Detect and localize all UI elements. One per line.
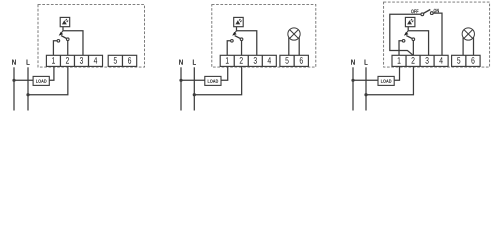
panel 1 terminal pin number 5	[114, 57, 117, 63]
panel 3 LOAD value label	[381, 79, 391, 82]
panel 2 relay K2 open contact	[231, 40, 234, 43]
panel 3 terminal pin number 6	[471, 57, 474, 64]
panel 3 live line L	[365, 67, 367, 110]
panel 1 junction on N	[12, 79, 15, 82]
panel 1 wire L to terminal 2	[28, 66, 68, 94]
panel 3 terminal block terminals 5-6	[452, 55, 481, 66]
panel 2 junction on N	[179, 79, 182, 82]
panel 3 wire relay pivot to terminal 2	[412, 41, 414, 56]
panel 1 terminal pin number 3	[80, 57, 83, 64]
panel 1 wire relay pivot to terminal 2	[67, 41, 69, 56]
panel 2 LOAD box	[205, 76, 221, 85]
panel 2 terminal pin number 1	[226, 57, 229, 63]
panel 1 photocell sensor B1 box	[60, 17, 69, 26]
panel 1 wire N to LOAD	[14, 79, 33, 81]
panel 1 relay K1 open contact	[57, 40, 60, 43]
panel 1 LOAD value label	[36, 79, 46, 82]
panel 1 wire relay contact to terminal 1	[53, 41, 57, 56]
panel 3 terminal pin number 4	[439, 57, 442, 63]
panel 2 wire L to terminal 2	[194, 66, 241, 94]
panel 3 neutral line N	[352, 67, 354, 110]
panel 1 terminal block terminals 5-6	[108, 55, 137, 66]
panel 2 relay K2 actuator arrow	[232, 31, 237, 36]
panel 3 wire lamp to terminal 5	[462, 37, 464, 55]
panel 2 label L	[193, 60, 196, 65]
panel 3 device dashed enclosure	[384, 2, 490, 67]
panel 1 neutral line N	[13, 67, 15, 110]
panel 3 wire N to LOAD	[353, 79, 378, 81]
panel 3 wire S1 pole to terminal 2	[390, 14, 421, 55]
panel 1 label L	[27, 60, 30, 65]
panel 1 terminal pin number 2	[66, 57, 69, 63]
panel 3 relay K3 pivot contact	[412, 38, 415, 41]
panel 3 terminal pin number 1	[398, 57, 401, 63]
panel 2 relay K2 pivot contact	[240, 38, 243, 41]
panel 2 relay K2 blade	[235, 36, 241, 39]
panel 1 wire sensor to terminal 3	[63, 31, 83, 56]
panel 1 terminal pin number 1	[52, 57, 55, 63]
panel 3 wire sensor lead	[407, 27, 409, 31]
panel 3 wire LOAD to terminal 1	[394, 66, 399, 80]
panel 3 relay K3 open contact	[402, 40, 405, 43]
panel 1 device dashed enclosure	[38, 5, 145, 68]
panel 3 switch S1 label OFF	[411, 9, 418, 13]
panel 2 terminal pin number 4	[268, 57, 271, 63]
panel 1 terminal pin number 4	[94, 57, 97, 63]
panel 2 wire sensor to terminal 3	[237, 31, 257, 56]
panel 3 label N	[351, 60, 355, 65]
panel 1 relay K1 pivot contact	[66, 38, 69, 41]
panel 3 wire sensor to terminal 3	[408, 31, 428, 56]
panel 2 LOAD value label	[208, 79, 218, 82]
panel 3 terminal pin number 2	[412, 57, 415, 63]
panel 3 switch S1 lever	[423, 10, 430, 14]
panel 2 neutral line N	[180, 67, 182, 110]
panel 2 wire N to LOAD	[181, 79, 205, 81]
panel 2 terminal pin number 3	[254, 57, 257, 64]
panel 2 photocell sensor B2 box	[234, 17, 244, 26]
panel 2 wire relay contact to terminal 1	[227, 41, 230, 56]
panel 2 terminal pin number 5	[285, 57, 288, 63]
panel 1 wire sensor lead	[62, 27, 64, 31]
panel 3 wire lamp to terminal 6	[473, 37, 475, 55]
panel 2 photocell sensor B2 icon	[235, 19, 241, 24]
panel 1 live line L	[27, 67, 29, 110]
panel 3 wire S1 throw to terminal 4	[433, 13, 442, 55]
panel 3 lamp E3	[462, 28, 474, 40]
panel 2 terminal pin number 2	[240, 57, 243, 63]
panel 3 photocell sensor B3 icon	[407, 19, 413, 24]
panel 3 photocell sensor B3 box	[405, 17, 415, 26]
panel 2 terminal pin number 6	[300, 57, 303, 64]
panel 3 LOAD box	[378, 76, 394, 85]
panel 2 wire LOAD to terminal 1	[221, 66, 228, 80]
panel 1 relay K1 actuator arrow	[59, 31, 64, 36]
panel 3 wire L to terminal 2	[366, 66, 413, 94]
panel 3 switch S1 throw contact	[430, 12, 433, 15]
panel 1 terminal block terminals 1-4	[46, 55, 102, 66]
panel 2 device dashed enclosure	[212, 5, 316, 68]
panel 2 wire sensor lead	[236, 27, 238, 31]
panel 1 relay K1 blade	[61, 36, 67, 39]
panel 3 terminal pin number 5	[457, 57, 460, 63]
panel 1 label N	[12, 60, 16, 65]
panel 2 junction on L	[193, 93, 196, 96]
panel 3 relay K3 blade	[406, 36, 412, 39]
panel 1 wire LOAD to terminal 1	[49, 66, 54, 80]
panel 1 LOAD box	[33, 76, 49, 85]
panel 1 junction on L	[26, 93, 29, 96]
panel 3 wire relay contact to terminal 1	[399, 41, 402, 56]
panel 3 switch S1 pole contact	[421, 13, 424, 16]
panel 3 terminal pin number 3	[425, 57, 428, 64]
panel 3 junction on L	[364, 93, 367, 96]
panel 3 junction on N	[351, 79, 354, 82]
panel 2 live line L	[193, 67, 195, 110]
panel 2 wire lamp to terminal 6	[298, 37, 300, 55]
panel 2 wire lamp to terminal 5	[288, 37, 290, 55]
panel 2 terminal block terminals 1-4	[220, 55, 276, 66]
panel 3 relay K3 actuator arrow	[404, 31, 409, 36]
panel 2 label N	[179, 60, 183, 65]
panel 3 label L	[365, 60, 368, 65]
panel 3 switch S1 label ON	[434, 9, 439, 13]
panel 1 terminal pin number 6	[128, 57, 131, 64]
panel 2 terminal block terminals 5-6	[280, 55, 309, 66]
panel 3 terminal block terminals 1-4	[392, 55, 448, 66]
panel 2 wire relay pivot to terminal 2	[241, 41, 243, 56]
panel 2 lamp E2	[288, 28, 300, 40]
panel 1 photocell sensor B1 icon	[62, 19, 68, 24]
